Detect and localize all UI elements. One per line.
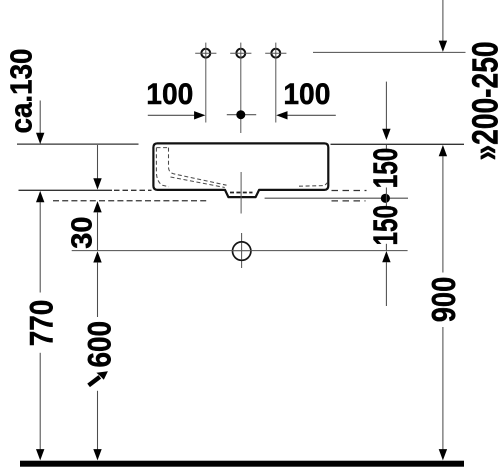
svg-text:150: 150: [367, 205, 405, 246]
dim ext line at x97 down: [93, 145, 101, 190]
svg-text:»200-250: »200-250: [465, 42, 498, 161]
svg-text:ca.130: ca.130: [4, 49, 39, 134]
hidden line A right dashes: [332, 190, 367, 192]
dim 150 bottom arrow up: [382, 251, 390, 306]
svg-text:600: 600: [82, 321, 118, 368]
ca.130 arrow: [36, 101, 44, 145]
svg-text:100: 100: [283, 78, 330, 111]
recommended arrow symbol: [89, 371, 108, 385]
dimension 100 left: [146, 78, 205, 120]
hidden line B dashes: [53, 200, 207, 202]
basin outline: [153, 143, 328, 197]
node center dot: [227, 114, 256, 116]
faucet hole right: [265, 43, 286, 123]
svg-text:150: 150: [367, 148, 405, 189]
centerline through basin: [240, 172, 242, 214]
outlet dot: [381, 194, 390, 203]
dim 30 arrow up: [93, 201, 101, 250]
dim pointer to rim (150 chain) top arrow: [382, 82, 390, 140]
svg-text:770: 770: [24, 300, 60, 347]
rim extension line left: [17, 143, 139, 145]
floor line: [20, 461, 464, 467]
hidden line A left solid: [19, 189, 113, 191]
outlet level line: [265, 197, 408, 199]
basin inner hidden profile: [156, 148, 327, 188]
dimension 100 right: [276, 78, 336, 120]
faucet hole center: [230, 43, 251, 133]
dim 770: [36, 191, 44, 461]
dim 900: [439, 145, 447, 460]
dim 600: [93, 251, 101, 460]
svg-text:30: 30: [67, 216, 99, 248]
hidden line A left dashes: [114, 189, 152, 191]
hidden line B right dashes: [332, 200, 366, 202]
supply height line: [313, 51, 466, 53]
svg-text:900: 900: [425, 277, 462, 323]
150 chain stubs: [385, 145, 387, 150]
rim extension line right: [331, 143, 465, 145]
supply arrow: [439, 0, 447, 52]
faucet hole left: [195, 43, 216, 123]
svg-text:100: 100: [146, 78, 193, 111]
siphon level line: [72, 250, 408, 252]
siphon circle: [232, 233, 253, 268]
drain hidden dashes: [230, 192, 253, 194]
